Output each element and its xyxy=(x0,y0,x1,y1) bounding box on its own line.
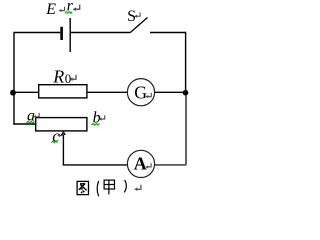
spellcheck zigzag under a xyxy=(27,121,35,123)
caption 甲 (drawn) xyxy=(104,180,114,194)
spellcheck zigzag under r xyxy=(65,12,72,14)
return mark after E xyxy=(59,7,65,12)
return mark after A xyxy=(145,163,151,168)
wire: battery to switch xyxy=(70,32,130,34)
return mark after r xyxy=(73,5,80,12)
return mark after caption xyxy=(134,185,141,191)
return mark after b xyxy=(99,115,105,120)
rheostat a-b box xyxy=(36,118,87,131)
svg-text:0: 0 xyxy=(65,71,72,86)
wire: branch to R0 xyxy=(13,91,38,93)
wire: R0 to galvanometer G xyxy=(87,91,128,93)
return mark after R0 xyxy=(69,75,76,81)
svg-text:G: G xyxy=(134,83,147,103)
caption fullwidth ( xyxy=(97,181,99,196)
wire: top-left horizontal from corner to battery xyxy=(14,32,60,34)
galvanometer G circle xyxy=(127,79,154,106)
wire: right vertical lower (junction down to bottom corner, gray) xyxy=(185,93,187,165)
wire: left vertical xyxy=(13,32,15,125)
switch S blade xyxy=(130,18,148,33)
caption 图 (drawn) xyxy=(77,181,88,194)
wire: left wire into rheostat terminal a xyxy=(13,123,35,125)
wire: switch right contact to top-right corner xyxy=(150,32,186,34)
ammeter A circle xyxy=(127,150,154,177)
return mark after G xyxy=(145,93,151,98)
node junction dot right xyxy=(183,90,189,96)
spellcheck zigzag under c xyxy=(51,141,57,143)
caption fullwidth ) xyxy=(124,180,126,193)
return mark after c xyxy=(57,132,63,137)
svg-text:A: A xyxy=(134,154,147,174)
wire: bottom-right horizontal to ammeter xyxy=(155,164,186,166)
battery E r : short thick negative plate xyxy=(60,27,63,40)
wire: wiper down and right to ammeter xyxy=(63,164,128,166)
wire: right vertical upper (corner down to junction) xyxy=(185,32,187,93)
rheostat wiper c arrow xyxy=(62,134,64,166)
return mark after a xyxy=(33,113,39,118)
node junction dot left xyxy=(10,90,16,96)
battery E r : long thin positive plate xyxy=(69,18,71,52)
return mark after S xyxy=(134,12,140,17)
wire: G to right junction xyxy=(155,91,186,93)
spellcheck zigzag under b xyxy=(92,123,100,125)
svg-text:E: E xyxy=(45,1,56,18)
svg-text:R: R xyxy=(52,66,64,86)
resistor R0 box xyxy=(39,85,87,98)
